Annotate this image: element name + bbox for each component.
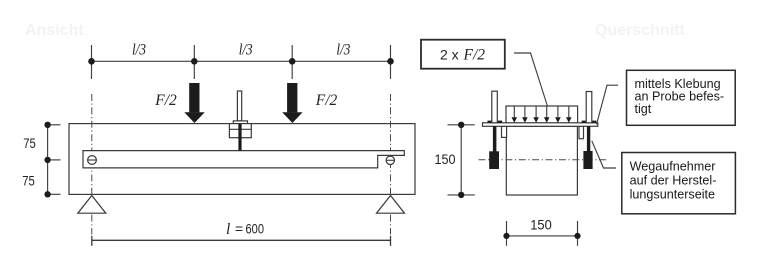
svg-text:l: l — [226, 221, 230, 238]
left dot of bottom 150 dimension — [503, 233, 509, 239]
center fixture screw shank — [238, 124, 241, 151]
svg-text:l/3: l/3 — [239, 42, 253, 59]
right sensor stem — [587, 126, 590, 151]
bottom span dimension line — [92, 239, 391, 241]
right clamp bracket — [579, 126, 584, 138]
dash-dot centerline left support — [91, 94, 93, 235]
center fixture rod — [237, 91, 241, 121]
dash-dot centerline right support — [390, 94, 392, 235]
tick at beam top for 75 dimension — [48, 124, 61, 126]
dot at beam middle dimension — [44, 157, 50, 163]
right dot of bottom 150 dimension — [574, 233, 580, 239]
right tick of bottom 150 dimension — [577, 221, 579, 246]
svg-text:auf der Herstel-: auf der Herstel- — [630, 174, 717, 188]
tick at first third point — [193, 45, 195, 79]
dot node left end top dimension — [88, 58, 95, 65]
leader line to mittels Klebung box — [597, 85, 619, 124]
load arrow 1 — [512, 106, 518, 123]
mittels Klebung label box — [627, 70, 736, 125]
svg-text:Querschnitt: Querschnitt — [595, 22, 685, 39]
bottom 150 dimension line — [507, 235, 578, 237]
left rod washer — [488, 121, 503, 123]
svg-text:Wegaufnehmer: Wegaufnehmer — [630, 160, 716, 174]
svg-text:=: = — [235, 221, 243, 237]
right vertical rod — [586, 92, 592, 123]
left height dimension line — [47, 125, 49, 195]
tick at beam middle for 75 dimension — [48, 159, 61, 161]
svg-text:l/3: l/3 — [132, 42, 146, 59]
load distribution band — [506, 106, 578, 123]
left tick of bottom dimension — [91, 236, 93, 246]
tick at right end of top dimension — [390, 45, 392, 79]
svg-text:75: 75 — [23, 135, 36, 151]
load arrow 4 — [544, 106, 550, 123]
center fixture box — [229, 124, 251, 138]
tick at left end of top dimension — [91, 45, 93, 79]
dot node right end top dimension — [387, 58, 394, 65]
top dimension line l — [92, 60, 391, 62]
force arrow F/2 right — [282, 83, 302, 123]
left support triangle — [78, 196, 106, 214]
svg-text:150: 150 — [435, 151, 456, 167]
load arrow 6 — [566, 106, 572, 123]
svg-text:Ansicht: Ansicht — [25, 22, 84, 39]
top dot of vertical 150 dimension — [458, 122, 464, 128]
svg-text:F/2: F/2 — [154, 92, 177, 109]
svg-text:F/2: F/2 — [463, 47, 486, 64]
Wegaufnehmer label box — [622, 153, 736, 214]
center fixture box divider — [229, 128, 251, 130]
specimen block — [506, 126, 577, 195]
glued plate across specimen top — [483, 123, 598, 127]
svg-text:150: 150 — [530, 217, 552, 233]
bottom dot of vertical 150 dimension — [458, 192, 464, 198]
svg-text:F/2: F/2 — [315, 92, 338, 109]
right displacement sensor body — [583, 151, 592, 169]
center fixture washer — [233, 121, 247, 124]
load arrow 3 — [533, 106, 539, 123]
dot at beam bottom dimension — [44, 191, 50, 197]
dot at beam top dimension — [44, 122, 50, 128]
dot node first third point — [191, 58, 198, 65]
label 2 x F/2 — [440, 47, 485, 64]
load arrow 5 — [555, 106, 561, 123]
svg-text:l/3: l/3 — [336, 42, 350, 59]
load arrow 2 — [522, 106, 528, 123]
dot node second third point — [289, 58, 296, 65]
right rod washer — [582, 121, 597, 123]
vertical 150 dimension line — [460, 125, 462, 195]
horizontal dash-dot centerline of specimen — [479, 159, 609, 161]
beam outline — [69, 124, 415, 195]
top tick of vertical 150 dimension — [448, 124, 475, 126]
label mittels Klebung text — [635, 77, 725, 116]
left tick of bottom 150 dimension — [506, 221, 508, 246]
svg-text:2 x: 2 x — [440, 47, 459, 63]
left displacement sensor body — [489, 151, 499, 169]
measuring bar inside beam — [83, 151, 404, 168]
left sensor stem — [493, 126, 497, 151]
2 x F/2 label box — [421, 40, 505, 69]
svg-text:lungsunterseite: lungsunterseite — [630, 188, 715, 202]
svg-text:tigt: tigt — [635, 102, 652, 116]
label l = 600 — [226, 221, 264, 238]
leader arrow from 2xF/2 box to load band — [514, 53, 550, 114]
leader line to Wegaufnehmer box — [592, 141, 616, 168]
right tick of bottom dimension — [390, 236, 392, 246]
force arrow F/2 left — [184, 83, 204, 123]
bottom tick of vertical 150 dimension — [448, 194, 475, 196]
right support triangle — [377, 196, 405, 214]
left clamp bracket — [502, 126, 507, 137]
label Wegaufnehmer text — [630, 160, 717, 202]
left screw of measuring bar — [88, 156, 97, 165]
svg-text:75: 75 — [22, 172, 35, 188]
tick at second third point — [291, 45, 293, 79]
right screw of measuring bar — [386, 156, 394, 164]
tick at beam bottom for 75 dimension — [48, 193, 61, 195]
left vertical rod — [492, 91, 498, 123]
svg-text:600: 600 — [246, 221, 265, 237]
